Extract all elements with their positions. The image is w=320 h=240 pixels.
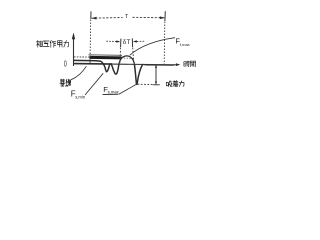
- x-axis (time axis baseline): [74, 63, 181, 66]
- T arrowhead right: [160, 16, 165, 19]
- label adhesion-force (kyuchakuryoku): [166, 81, 184, 87]
- deltaT right dashed drop: [133, 48, 134, 62]
- T arrowhead left: [91, 17, 96, 20]
- svg-text:0: 0: [64, 59, 67, 68]
- T dashed arrow line right segment: [133, 16, 165, 19]
- svg-text:f,max: f,max: [180, 42, 190, 47]
- leader line to Ff,max: [130, 38, 175, 56]
- axis label interaction-force (sougo sayou ryoku): [36, 40, 68, 47]
- wire deep-dip segment: [134, 64, 142, 85]
- deltaT left bar: [120, 39, 122, 47]
- F s,min leader line: [85, 73, 103, 95]
- deltaT right arrow dashed tail: [137, 40, 145, 42]
- adhesion bottom tick: [153, 84, 160, 86]
- adhesion measure vertical double arrow: [155, 65, 157, 85]
- adhesion depth dashed level line: [138, 83, 153, 85]
- wire tail segment: [143, 63, 174, 66]
- label time (jikan): [184, 61, 196, 67]
- F s,max leader line: [119, 85, 136, 95]
- deltaT left arrow dashed tail: [106, 40, 117, 42]
- svg-text:s,max: s,max: [108, 90, 120, 95]
- T right dashed drop line: [163, 22, 166, 65]
- T measure right bar: [164, 11, 166, 21]
- deltaT right bar: [131, 38, 133, 47]
- faint upper edge line of dark band: [89, 54, 123, 57]
- y-axis: [72, 33, 75, 67]
- label baseline (kisen): [60, 79, 71, 86]
- T measure left bar: [90, 11, 92, 18]
- dotted reference line (baseline level) left thin part: [74, 56, 90, 58]
- thick dark band core: [90, 56, 122, 60]
- T left dashed drop line: [89, 20, 92, 64]
- wire W-dips segment: [101, 61, 119, 74]
- dotted reference line over hump: [124, 57, 135, 60]
- deltaT right arrowhead: [133, 40, 137, 42]
- label F f,max: [175, 37, 189, 48]
- deltaT left arrowhead: [116, 40, 120, 42]
- wire hump segment: [119, 56, 134, 64]
- deltaT left dashed drop: [119, 48, 121, 63]
- label F s,max underlined: [103, 85, 120, 94]
- baseline leader line: [71, 66, 86, 80]
- svg-text:T: T: [125, 14, 129, 20]
- force curve: flat start segment: [74, 59, 101, 62]
- T dashed arrow line left segment: [92, 17, 123, 20]
- label F s,min: [71, 90, 86, 100]
- svg-text:s,min: s,min: [75, 94, 86, 99]
- svg-text:δT: δT: [123, 39, 131, 46]
